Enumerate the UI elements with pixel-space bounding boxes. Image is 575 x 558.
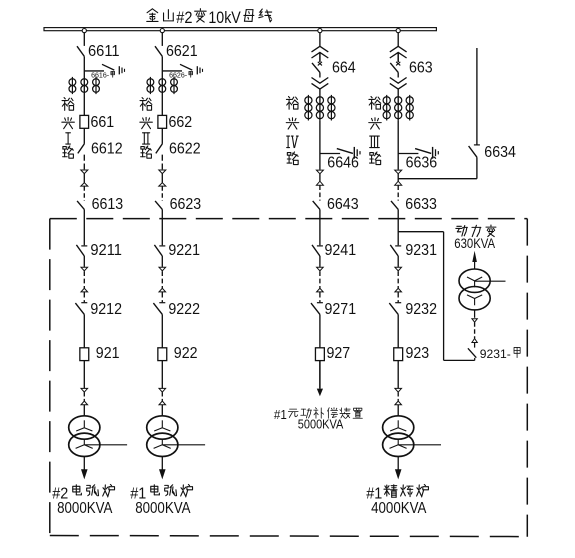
- label #1无功补偿装置: [274, 407, 362, 422]
- wire into switch room feeder 662: [161, 209, 163, 245]
- label 动力变: [456, 225, 496, 237]
- earth symbol for 6616-甲: [119, 66, 124, 74]
- circuit breaker 664 contact cross: [318, 62, 322, 66]
- label 9231-甲: [480, 347, 520, 361]
- wire below 6621: [161, 56, 163, 115]
- svg-text:661: 661: [91, 114, 115, 131]
- circuit breaker 923 (cubicle): [394, 348, 403, 361]
- drawout contact (down) above transformer #1精炼炉: [395, 388, 402, 392]
- wire to breaker 921: [83, 314, 85, 347]
- disconnector 6612: [78, 144, 85, 154]
- svg-text:#1: #1: [274, 407, 287, 422]
- label 6616-甲: [91, 70, 114, 79]
- svg-text:6636: 6636: [406, 154, 438, 171]
- furnace transformer #1精炼炉 (two windings): [383, 416, 414, 457]
- disconnector 6611: [77, 46, 84, 56]
- svg-text:6622: 6622: [169, 141, 201, 158]
- drawout contact (up) at 9232: [395, 288, 402, 292]
- disconnector 6623: [155, 201, 162, 210]
- svg-text:6633: 6633: [405, 196, 437, 213]
- label #2电弧炉: [52, 484, 114, 502]
- wire to furnace #2电弧炉: [83, 457, 85, 470]
- wire dashed between contacts 9241: [319, 271, 321, 288]
- earth symbol for 6626-甲: [197, 66, 202, 74]
- label 8000KVA: [57, 500, 113, 517]
- wire 9231-jia to feeder 663 junction: [398, 232, 475, 361]
- svg-text:6626-: 6626-: [169, 70, 188, 79]
- wire below breaker 923: [397, 361, 399, 389]
- wire to breaker contact 663: [397, 52, 399, 62]
- wire to furnace #1精炼炉: [397, 457, 399, 470]
- current transformers on feeder 662 (3x2): [147, 77, 177, 94]
- wire below breaker 663: [397, 72, 399, 77]
- earthing switch blade 6626-甲: [180, 64, 192, 70]
- svg-text:9222: 9222: [168, 301, 200, 318]
- label 6613: [92, 196, 124, 213]
- drawout contact (down) feeder 664: [316, 170, 323, 174]
- winding star symbols #1电弧炉: [154, 420, 171, 448]
- svg-text:9231: 9231: [405, 242, 437, 259]
- label 6626-甲: [169, 70, 192, 79]
- label 9241: [325, 242, 357, 259]
- svg-text:6646: 6646: [327, 154, 359, 171]
- label 6633: [405, 196, 437, 213]
- label 6634: [484, 144, 516, 161]
- svg-text:6616-: 6616-: [91, 70, 110, 79]
- svg-text:9232: 9232: [405, 301, 437, 318]
- wire above 6633: [397, 185, 399, 200]
- drawout contact (down) below 动力变: [472, 319, 477, 323]
- wire below breaker 927: [319, 361, 321, 389]
- svg-text:6623: 6623: [170, 196, 202, 213]
- label 922: [174, 345, 198, 362]
- earthing switch blade 6646: [337, 149, 353, 154]
- node: busbar tap 2: [160, 29, 164, 33]
- wire into switch room feeder 663: [397, 209, 399, 245]
- label 921: [96, 345, 120, 362]
- svg-text:10kV: 10kV: [208, 9, 241, 27]
- feeder name 裕兴II路: [140, 98, 152, 159]
- wire (drawout) below 6622: [161, 155, 163, 170]
- furnace transformer #2电弧炉 (two windings): [69, 416, 100, 457]
- drawout contact (up) above transformer #1精炼炉: [395, 401, 402, 405]
- svg-text:8000KVA: 8000KVA: [57, 500, 113, 517]
- svg-text:921: 921: [96, 345, 120, 362]
- label 9232: [405, 301, 437, 318]
- disconnector 6613: [77, 201, 84, 210]
- label 630KVA: [454, 236, 496, 251]
- current transformers on feeder 661 (3x2): [69, 77, 99, 94]
- circuit breaker 922 (cubicle): [158, 348, 167, 361]
- svg-text:6643: 6643: [327, 196, 359, 213]
- svg-text:663: 663: [409, 59, 433, 76]
- winding star symbols #2电弧炉: [76, 420, 93, 448]
- wire 6634 from busbar area: [476, 48, 478, 145]
- feeder name 裕兴I路: [62, 98, 74, 159]
- disconnector 9231-甲: [468, 348, 476, 357]
- wire between contacts feeder 662: [161, 174, 163, 183]
- svg-text:630KVA: 630KVA: [454, 236, 496, 251]
- wire to transformer #1精炼炉: [397, 405, 399, 416]
- transformer tap lead #2电弧炉: [84, 444, 127, 446]
- wire below CTs 664: [319, 121, 321, 170]
- circuit breaker 927 (cubicle): [315, 348, 324, 361]
- earth symbol for 6636: [433, 147, 439, 159]
- wire feeder 664 from busbar: [319, 32, 321, 46]
- disconnector 9241: [312, 245, 323, 256]
- label 9222: [168, 301, 200, 318]
- drawout contact (up) at 9222: [159, 288, 166, 292]
- switchgear room boundary (dashed box): [50, 219, 528, 537]
- wire above 9271: [319, 292, 321, 302]
- svg-text:8000KVA: 8000KVA: [135, 500, 191, 517]
- disconnector 9211: [76, 245, 87, 256]
- svg-text:6612: 6612: [91, 141, 123, 158]
- drawout contact (up) at 9271: [317, 288, 324, 292]
- drawout contact (down) at 9231: [395, 267, 402, 271]
- label 923: [406, 345, 430, 362]
- label 927: [327, 345, 351, 362]
- feeder name 裕兴III路: [369, 96, 381, 164]
- transformer tap lead 动力变: [475, 280, 506, 282]
- disconnector 9231: [390, 245, 401, 256]
- current transformers on feeder 663 (3x3): [383, 95, 413, 121]
- label 9231: [405, 242, 437, 259]
- circuit breaker 921 (cubicle): [80, 348, 89, 361]
- wire dashed between contacts 9221: [161, 271, 163, 288]
- wire above 9232: [397, 292, 399, 302]
- wire earth branch 6616-甲: [84, 70, 104, 72]
- wire below 9211: [83, 256, 85, 267]
- node: busbar tap 3: [318, 29, 322, 33]
- wire to breaker 922: [161, 314, 163, 347]
- wire to transformer #2电弧炉: [83, 405, 85, 416]
- drawout contact (up) feeder 661: [81, 183, 88, 186]
- svg-text:5000KVA: 5000KVA: [298, 416, 344, 431]
- svg-text:664: 664: [332, 59, 356, 76]
- disconnector 6622: [156, 144, 163, 154]
- feeder name 裕兴IV路: [286, 96, 298, 164]
- busbar 10kV (double line): [44, 28, 436, 31]
- wire feeder 661 from busbar: [83, 32, 85, 46]
- drawout contact (down) at 9241: [317, 267, 324, 271]
- label 663: [409, 59, 433, 76]
- drawout contact (up) at 9212: [81, 288, 88, 292]
- label 4000KVA: [371, 500, 427, 517]
- earthing switch blade 6636: [415, 149, 431, 154]
- label 6622: [169, 141, 201, 158]
- wire feeder 662 from busbar: [161, 32, 163, 46]
- disconnector 9222: [153, 303, 165, 315]
- drawout contact (up) above transformer #1电弧炉: [159, 401, 166, 405]
- circuit breaker 663 contact cross: [396, 62, 400, 66]
- drawout contact (down) feeder 661: [81, 170, 88, 174]
- wire feeder 663 from busbar: [397, 32, 399, 46]
- svg-text:6621: 6621: [166, 43, 198, 60]
- wire above 6623: [161, 186, 163, 201]
- wire (drawout) below 6612: [83, 155, 85, 170]
- wire below 动力变: [474, 310, 476, 318]
- svg-text:9212: 9212: [90, 301, 122, 318]
- wire to transformer #1电弧炉: [161, 405, 163, 416]
- drawout contact (up) feeder 664: [316, 181, 323, 185]
- transformer tap lead #1电弧炉: [162, 444, 205, 446]
- busbar title 金山#2变10kV母线: [147, 9, 272, 27]
- label #1电弧炉: [130, 484, 192, 502]
- disconnector 6621: [155, 46, 162, 56]
- wire dashed between contacts 9231: [397, 271, 399, 288]
- disconnector 6633: [391, 201, 398, 210]
- arrow to furnace #2电弧炉: [81, 469, 88, 479]
- wire below 6611: [83, 56, 85, 115]
- drawout contact (down) feeder 663: [395, 170, 402, 174]
- wire below 9231: [397, 256, 399, 267]
- label #1精炼炉: [366, 484, 428, 502]
- node: busbar tap 4: [396, 29, 400, 33]
- wire below breaker 921: [83, 361, 85, 389]
- svg-text:6634: 6634: [484, 144, 516, 161]
- svg-text:9241: 9241: [325, 242, 357, 259]
- wire between contacts feeder 661: [83, 174, 85, 183]
- current transformers on feeder 664 (3x3): [305, 95, 335, 121]
- wire above 9212: [83, 292, 85, 302]
- arrow to compensation device: [317, 389, 323, 397]
- svg-text:#2: #2: [176, 9, 192, 27]
- wire to breaker 923: [397, 314, 399, 347]
- svg-text:9211: 9211: [90, 242, 122, 259]
- label 6643: [327, 196, 359, 213]
- wire dashed to 9231-jia: [474, 322, 476, 338]
- furnace transformer #1电弧炉 (two windings): [147, 416, 178, 457]
- label 6612: [91, 141, 123, 158]
- disconnector 9271: [311, 303, 323, 315]
- wire below 9241: [319, 256, 321, 267]
- earth symbol for 6646: [354, 147, 360, 159]
- svg-text:6613: 6613: [92, 196, 124, 213]
- circuit breaker 664 blade: [312, 63, 320, 73]
- drawout contact (down) at 9211: [81, 267, 88, 271]
- svg-text:927: 927: [327, 345, 351, 362]
- disconnector 6634: [469, 145, 480, 157]
- node: busbar tap 1: [82, 29, 86, 33]
- svg-text:9231-: 9231-: [480, 347, 511, 361]
- label 6623: [170, 196, 202, 213]
- label 661: [91, 114, 115, 131]
- wire to breaker 927: [319, 314, 321, 347]
- wire below breaker 661: [83, 128, 85, 144]
- wire between contacts feeder 664: [319, 174, 321, 181]
- drawout contact (up) feeder 663: [395, 181, 402, 185]
- drawout contact (down) above transformer #1电弧炉: [159, 388, 166, 392]
- wire to CTs 664: [319, 89, 321, 121]
- drawout chevrons (bottom) feeder 664: [312, 78, 329, 90]
- label 6621: [166, 43, 198, 60]
- label 664: [332, 59, 356, 76]
- svg-text:9221: 9221: [168, 242, 200, 259]
- label 9221: [168, 242, 200, 259]
- label 9271: [325, 301, 357, 318]
- wire above 9222: [161, 292, 163, 302]
- drawout contact (up) feeder 662: [159, 183, 166, 186]
- wire above 6643: [319, 185, 321, 200]
- wire between contacts feeder 663: [397, 174, 399, 181]
- label 9211: [90, 242, 122, 259]
- svg-text:662: 662: [169, 114, 193, 131]
- wire below breaker 922: [161, 361, 163, 389]
- disconnector 9212: [75, 303, 87, 315]
- drawout contact (down) above transformer #2电弧炉: [81, 388, 88, 392]
- svg-text:9271: 9271: [325, 301, 357, 318]
- wire below breaker 662: [161, 128, 163, 144]
- wire into switch room feeder 664: [319, 209, 321, 245]
- wire into switch room feeder 661: [83, 209, 85, 245]
- wire below 9221: [161, 256, 163, 267]
- drawout chevrons (top) feeder 664: [312, 46, 329, 58]
- disconnector 6643: [313, 201, 320, 210]
- label 6636: [406, 154, 438, 171]
- power transformer 动力变 630KVA (two windings): [459, 269, 490, 310]
- winding star symbols 动力变: [467, 277, 482, 305]
- drawout contact (up) above transformer #2电弧炉: [81, 401, 88, 405]
- wire below CTs 663: [397, 121, 399, 170]
- wire dashed above transformer #2电弧炉: [83, 392, 85, 401]
- disconnector 9221: [154, 245, 165, 256]
- drawout chevrons (top) feeder 663: [390, 46, 407, 58]
- svg-text:923: 923: [406, 345, 430, 362]
- circuit breaker 663 blade: [390, 63, 398, 73]
- earthing switch blade 6616-甲: [102, 64, 114, 70]
- svg-text:6611: 6611: [88, 43, 120, 60]
- wire dashed between contacts 9211: [83, 271, 85, 288]
- arrow to furnace #1电弧炉: [159, 469, 166, 479]
- arrow to furnace #1精炼炉: [395, 469, 402, 479]
- wire dashed above transformer #1精炼炉: [397, 392, 399, 401]
- wire to breaker contact 664: [319, 52, 321, 62]
- label 6611: [88, 43, 120, 60]
- svg-text:4000KVA: 4000KVA: [371, 500, 427, 517]
- transformer tap lead #1精炼炉: [398, 444, 441, 446]
- wire 6634 elbow to feeder 663: [398, 157, 477, 179]
- wire below breaker 664: [319, 72, 321, 77]
- drawout contact (up) above 9231-jia: [472, 339, 477, 343]
- wire dashed above transformer #1电弧炉: [161, 392, 163, 401]
- label 8000KVA: [135, 500, 191, 517]
- wire to compensation device: [319, 361, 321, 389]
- label 5000KVA: [298, 416, 344, 431]
- wire earth branch 6626-甲: [162, 70, 182, 72]
- circuit breaker 662 (cubicle): [158, 115, 167, 128]
- winding star symbols #1精炼炉: [390, 420, 407, 448]
- label 662: [169, 114, 193, 131]
- wire above 6613: [83, 186, 85, 201]
- drawout contact (down) at 9221: [159, 267, 166, 271]
- svg-text:922: 922: [174, 345, 198, 362]
- wire earth branch 6636: [398, 153, 418, 155]
- circuit breaker 661 (cubicle): [80, 115, 89, 128]
- drawout chevrons (bottom) feeder 663: [390, 78, 407, 90]
- arrow up from transformer: [472, 251, 477, 269]
- wire earth branch 6646: [320, 153, 340, 155]
- wire to furnace #1电弧炉: [161, 457, 163, 470]
- label 9212: [90, 301, 122, 318]
- disconnector 9232: [389, 303, 401, 315]
- wire above 9231-jia: [474, 343, 476, 348]
- label 6646: [327, 154, 359, 171]
- drawout contact (down) feeder 662: [159, 170, 166, 174]
- wire to CTs 663: [397, 89, 399, 121]
